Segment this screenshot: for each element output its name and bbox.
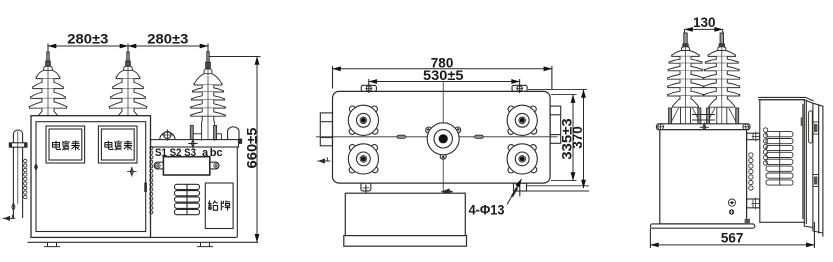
tank body outline (plan) [333, 91, 551, 183]
foot left [44, 242, 60, 246]
lower bracket tank-cabinet [747, 198, 760, 210]
bottom-left fitting [3, 215, 16, 220]
label 4-Φ13 with leader [469, 179, 522, 218]
vertical centreline [442, 82, 444, 192]
svg-text:4-Φ13: 4-Φ13 [469, 203, 505, 218]
centre bushing [426, 123, 461, 159]
nameplate text [208, 201, 230, 211]
plate end black tab [239, 139, 242, 143]
meter window 1 [46, 126, 85, 163]
door handle mark [144, 183, 147, 193]
bushing circle C (top-right) [507, 105, 537, 135]
left arrow fitting [317, 157, 330, 163]
bushing B1 (front view) [29, 52, 66, 116]
cabinet plan bottom strip [344, 236, 467, 247]
dimension 660±5 [209, 57, 261, 243]
dimension 370 [528, 89, 587, 188]
top lug left [361, 84, 376, 93]
door latch [801, 117, 804, 126]
meter cabinet outer box [31, 116, 151, 238]
door edge lines [803, 101, 806, 224]
dimension 530±5 [369, 68, 520, 85]
meter cabinet inner box [36, 122, 146, 232]
meter window 2 [98, 126, 137, 163]
svg-text:280±3: 280±3 [147, 32, 189, 47]
plate end bolt right [742, 123, 749, 130]
conduit tube (front right, arc top) [228, 127, 239, 140]
drain plug [729, 209, 734, 214]
side cabinet face [760, 100, 805, 223]
left conduit tube [9, 130, 27, 218]
svg-text:660±5: 660±5 [244, 127, 259, 169]
terminal tab right [210, 162, 219, 169]
support block tank-cabinet bottom [745, 219, 750, 224]
nameplate 铭牌 [205, 183, 233, 229]
base line [28, 241, 259, 243]
bottom lug right [514, 183, 590, 196]
left side bracket [320, 113, 332, 146]
bushing B3 (front view, centre tall) [191, 52, 226, 141]
bushing support studs [669, 108, 739, 124]
terminal box [163, 157, 209, 175]
oil slot right [475, 135, 483, 138]
bushing circle A (top-left) [348, 105, 378, 135]
bottom lug left [361, 183, 371, 194]
transformer body top plate [151, 140, 239, 147]
hinge top [813, 122, 819, 134]
meter cabinet (plan) [345, 193, 465, 235]
svg-text:530±5: 530±5 [423, 68, 464, 83]
dimension 280±3 (right span) [128, 45, 208, 47]
plate centre mark [700, 122, 709, 132]
scallop chain on tank edge [749, 153, 753, 190]
side bushing S1 [668, 33, 704, 124]
bushing B2 (front view) [109, 52, 146, 116]
dimension 130 [685, 15, 723, 40]
hinge bottom [813, 175, 819, 187]
lifting lug [160, 129, 175, 141]
body bottom edge [151, 236, 237, 238]
horizontal centreline [316, 136, 558, 138]
foot right [197, 242, 213, 246]
centreline end arrow [443, 190, 452, 194]
scallop chain on cabinet edge [763, 128, 767, 165]
dimension 335±3 [551, 95, 577, 181]
right side bracket [550, 106, 561, 143]
louvers [174, 184, 199, 214]
svg-text:370: 370 [570, 126, 585, 149]
conduit chain [24, 159, 27, 198]
tank body (side) [660, 130, 747, 224]
door stiffener [809, 111, 813, 143]
meter window 1 text 电度表 [53, 141, 80, 151]
svg-text:c: c [216, 147, 222, 159]
plate centre mark (diamond cross) [188, 139, 197, 148]
bushing B3 base studs [190, 126, 221, 140]
upper bracket tank-cabinet [747, 132, 760, 142]
inner edge diamond mark [35, 164, 38, 171]
dimension 780 [333, 56, 552, 90]
tank top plate (side) [656, 124, 750, 130]
cabinet centre mark (diamond cross) [127, 167, 136, 177]
svg-text:130: 130 [693, 15, 716, 30]
plate end bolt left [657, 123, 664, 130]
bushing circle B (bottom-left) [348, 144, 378, 174]
bushing circle D (bottom-right) [507, 144, 537, 174]
svg-text:280±3: 280±3 [67, 32, 109, 47]
oil level gauge [728, 199, 735, 206]
cabinet side wall [804, 103, 823, 237]
cabinet hinge chain (right edge) [150, 146, 153, 214]
svg-text:567: 567 [721, 231, 744, 246]
dimension 567 [650, 222, 814, 248]
body right edge [237, 147, 238, 237]
dimension 280±3 (left span) [48, 44, 208, 52]
oil slot left [397, 135, 405, 138]
top lug right [512, 84, 527, 93]
conduit diamond [12, 203, 15, 211]
side louvers [766, 132, 793, 186]
terminal tab left [154, 162, 163, 169]
tank base plate [650, 224, 754, 228]
side bushing S2 [704, 33, 740, 124]
meter window 2 text 电度表 [105, 141, 132, 151]
cabinet lid [758, 97, 813, 103]
